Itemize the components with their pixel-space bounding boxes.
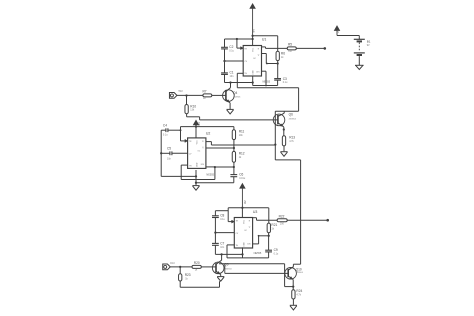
svg-text:100: 100 xyxy=(288,51,292,53)
svg-text:10n: 10n xyxy=(230,75,235,78)
svg-text:GND: GND xyxy=(243,242,245,247)
svg-text:C7: C7 xyxy=(220,242,224,246)
svg-text:1k: 1k xyxy=(185,277,188,280)
svg-text:VCC: VCC xyxy=(252,47,254,52)
svg-text:100: 100 xyxy=(280,222,285,225)
svg-text:NE555: NE555 xyxy=(206,174,214,177)
svg-text:2N3904: 2N3904 xyxy=(224,269,232,271)
svg-text:R12: R12 xyxy=(239,151,245,155)
svg-text:VCC: VCC xyxy=(243,219,245,224)
svg-text:0.1u: 0.1u xyxy=(229,49,234,52)
svg-text:0.1u: 0.1u xyxy=(220,218,225,221)
svg-text:Q10: Q10 xyxy=(296,267,302,271)
svg-text:R21: R21 xyxy=(271,223,277,227)
svg-text:R23: R23 xyxy=(185,273,191,277)
svg-text:0.1u: 0.1u xyxy=(163,134,168,137)
svg-text:D10: D10 xyxy=(170,262,175,265)
svg-text:C5: C5 xyxy=(167,146,171,150)
svg-text:4.7k: 4.7k xyxy=(296,294,301,297)
svg-text:NE555: NE555 xyxy=(254,252,262,255)
svg-text:GND: GND xyxy=(252,70,254,75)
svg-text:0.1u: 0.1u xyxy=(274,253,279,256)
svg-text:9V: 9V xyxy=(252,29,256,33)
svg-text:B1: B1 xyxy=(367,39,371,43)
svg-text:1k: 1k xyxy=(195,269,198,272)
svg-text:13k: 13k xyxy=(190,109,195,112)
svg-text:2N3904: 2N3904 xyxy=(296,272,304,274)
svg-text:R24: R24 xyxy=(296,289,302,293)
svg-text:1k: 1k xyxy=(271,227,274,230)
svg-text:0.01u: 0.01u xyxy=(239,177,246,180)
svg-text:R6: R6 xyxy=(281,51,285,55)
svg-text:2N3906: 2N3906 xyxy=(233,96,241,98)
svg-text:VCC: VCC xyxy=(197,140,199,145)
svg-text:10n: 10n xyxy=(220,246,225,249)
svg-text:4.7k: 4.7k xyxy=(289,140,294,143)
svg-text:R20: R20 xyxy=(194,261,200,265)
svg-text:Q6: Q6 xyxy=(289,113,293,117)
svg-text:R22: R22 xyxy=(279,214,285,218)
svg-text:C2: C2 xyxy=(229,45,233,49)
svg-text:C4: C4 xyxy=(163,123,167,127)
svg-text:U3: U3 xyxy=(253,210,258,214)
svg-text:NE555: NE555 xyxy=(263,80,271,83)
svg-text:9V: 9V xyxy=(197,122,201,126)
svg-text:0.1u: 0.1u xyxy=(283,81,288,84)
svg-text:R13: R13 xyxy=(289,136,295,140)
svg-text:1k: 1k xyxy=(239,156,242,159)
svg-text:Q4: Q4 xyxy=(233,91,237,95)
svg-text:TR2: TR2 xyxy=(178,90,183,93)
svg-text:10k: 10k xyxy=(239,134,244,137)
svg-text:1k: 1k xyxy=(281,56,284,59)
svg-text:C8: C8 xyxy=(220,213,224,217)
svg-text:9V: 9V xyxy=(243,200,247,204)
svg-text:R7: R7 xyxy=(203,89,207,93)
svg-text:R5: R5 xyxy=(288,43,292,47)
svg-text:R11: R11 xyxy=(239,130,245,134)
svg-text:10n: 10n xyxy=(167,158,172,161)
svg-text:GND: GND xyxy=(197,162,199,167)
svg-text:9V: 9V xyxy=(367,44,370,47)
svg-text:U1: U1 xyxy=(262,38,267,42)
svg-text:U2: U2 xyxy=(206,131,211,135)
svg-text:9V: 9V xyxy=(337,30,340,33)
svg-text:C1: C1 xyxy=(230,71,234,75)
svg-text:C9: C9 xyxy=(274,248,278,252)
svg-text:2N3904: 2N3904 xyxy=(289,118,297,120)
